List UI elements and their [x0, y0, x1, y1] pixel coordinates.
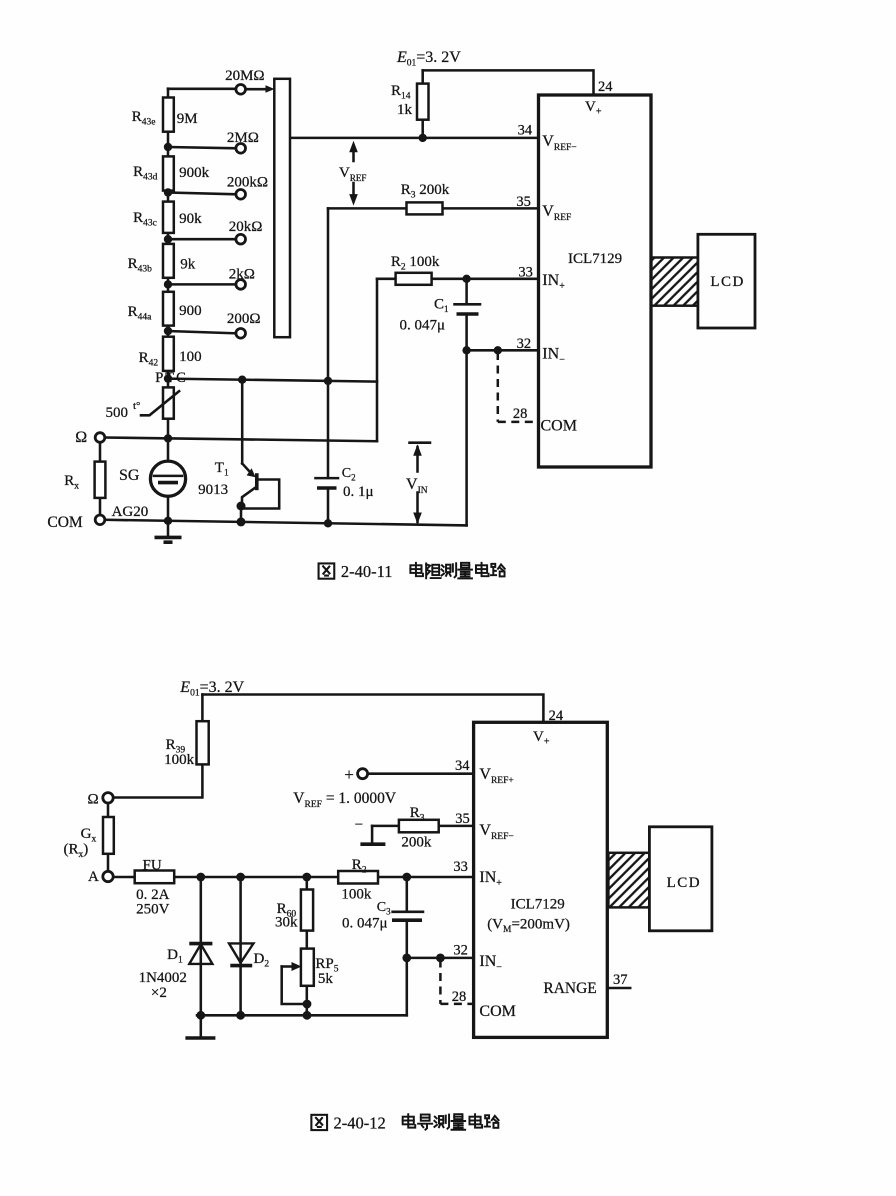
svg-text:2MΩ: 2MΩ	[227, 130, 259, 146]
svg-text:R3 200k: R3 200k	[401, 182, 450, 201]
svg-text:20MΩ: 20MΩ	[225, 68, 265, 84]
svg-text:33: 33	[453, 859, 468, 875]
svg-text:9k: 9k	[180, 257, 196, 273]
svg-text:A: A	[88, 869, 99, 885]
svg-text:2-40-11: 2-40-11	[341, 562, 393, 581]
svg-text:ICL7129: ICL7129	[568, 251, 622, 267]
svg-text:34: 34	[455, 758, 470, 774]
svg-text:34: 34	[518, 123, 533, 139]
svg-text:900k: 900k	[179, 165, 210, 181]
svg-text:20kΩ: 20kΩ	[229, 219, 263, 235]
svg-text:37: 37	[613, 972, 628, 988]
svg-text:100: 100	[179, 349, 202, 365]
svg-text:0. 047μ: 0. 047μ	[342, 916, 388, 932]
svg-text:250V: 250V	[136, 902, 170, 918]
svg-text:AG20: AG20	[112, 504, 149, 520]
svg-text:900: 900	[179, 303, 202, 319]
svg-text:E01=3. 2V: E01=3. 2V	[179, 679, 244, 699]
svg-text:Ω: Ω	[75, 429, 87, 446]
svg-text:COM: COM	[47, 514, 83, 531]
svg-text:E01=3. 2V: E01=3. 2V	[396, 49, 461, 69]
svg-text:ICL7129: ICL7129	[511, 897, 565, 913]
svg-text:SG: SG	[119, 467, 140, 484]
svg-text:500: 500	[106, 405, 129, 421]
svg-text:COM: COM	[541, 418, 577, 435]
svg-text:2kΩ: 2kΩ	[229, 267, 255, 283]
svg-text:100k: 100k	[164, 752, 195, 768]
svg-text:33: 33	[518, 265, 533, 281]
svg-text:0. 1μ: 0. 1μ	[343, 484, 374, 500]
svg-text:R2 100k: R2 100k	[391, 254, 440, 273]
svg-text:−: −	[355, 817, 363, 833]
svg-text:200Ω: 200Ω	[227, 311, 261, 327]
svg-text:(Rx): (Rx)	[64, 842, 89, 861]
svg-text:5k: 5k	[318, 971, 334, 987]
svg-text:2-40-12: 2-40-12	[334, 1114, 386, 1133]
svg-text:28: 28	[452, 989, 467, 1005]
svg-text:200k: 200k	[401, 835, 432, 851]
svg-text:FU: FU	[143, 858, 162, 874]
svg-text:35: 35	[455, 811, 470, 827]
svg-text:+: +	[344, 765, 354, 784]
svg-text:32: 32	[453, 943, 468, 959]
svg-text:RANGE: RANGE	[543, 980, 596, 997]
svg-text:LCD: LCD	[710, 274, 745, 290]
svg-text:24: 24	[549, 708, 564, 724]
svg-text:24: 24	[598, 79, 613, 95]
svg-text:t°: t°	[133, 400, 140, 412]
svg-text:90k: 90k	[179, 211, 202, 227]
svg-text:9013: 9013	[198, 482, 228, 498]
svg-text:LCD: LCD	[667, 875, 702, 891]
svg-text:1N4002: 1N4002	[139, 970, 187, 986]
svg-text:1k: 1k	[397, 102, 413, 118]
svg-text:28: 28	[513, 406, 528, 422]
svg-text:100k: 100k	[341, 887, 372, 903]
svg-text:(VM=200mV): (VM=200mV)	[487, 917, 570, 936]
svg-text:32: 32	[517, 336, 532, 352]
svg-text:200kΩ: 200kΩ	[227, 175, 268, 191]
svg-text:9M: 9M	[177, 111, 198, 127]
svg-text:Ω: Ω	[88, 792, 99, 808]
svg-text:COM: COM	[479, 1003, 515, 1020]
svg-text:×2: ×2	[151, 985, 167, 1001]
svg-text:PTC: PTC	[155, 370, 188, 386]
svg-text:30k: 30k	[275, 915, 298, 931]
svg-text:35: 35	[516, 194, 531, 210]
svg-text:0. 047μ: 0. 047μ	[400, 318, 446, 334]
